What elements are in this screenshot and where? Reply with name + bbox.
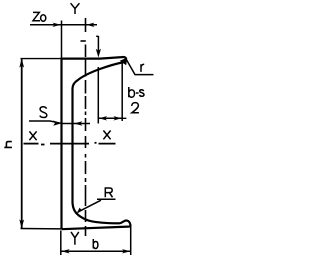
Zo arrow left (pointing right at web face) bbox=[53, 23, 61, 27]
R arrowhead at fillet bbox=[77, 208, 85, 214]
channel section outline bbox=[62, 57, 131, 229]
b-s over 2 right extension line (from flange tip) bbox=[121, 63, 123, 121]
S arrow at web outer face bbox=[53, 120, 61, 125]
Y label bottom bbox=[71, 232, 79, 245]
b dimension line bbox=[61, 250, 130, 252]
Zo dimension line bbox=[30, 24, 97, 26]
h dimension extension line top bbox=[21, 58, 62, 60]
b-s/2 arrow right bbox=[113, 116, 121, 120]
h dimension extension line bottom bbox=[21, 228, 62, 230]
r leader line bbox=[126, 59, 154, 75]
t measurement line upper with down arrow bbox=[97, 36, 99, 52]
Y label top bbox=[71, 3, 80, 14]
h dimension line bbox=[21, 59, 23, 228]
h arrow top bbox=[19, 59, 24, 68]
R leader underline bbox=[97, 198, 116, 200]
h arrow bottom bbox=[19, 219, 24, 228]
b label bbox=[93, 239, 98, 249]
b-s over 2 dimension line bbox=[99, 117, 122, 119]
S leader line bbox=[29, 121, 61, 123]
label b-s bbox=[129, 87, 144, 97]
r label bbox=[141, 64, 144, 72]
X label right bbox=[103, 131, 110, 140]
b arrow right bbox=[122, 249, 130, 253]
label 2 (denominator) bbox=[132, 103, 139, 113]
h label (rotated) bbox=[4, 142, 12, 148]
S arrow at web inner face bbox=[74, 121, 82, 125]
R label bbox=[105, 188, 112, 197]
t measurement line lower / b-s over 2 left extension bbox=[97, 67, 99, 124]
b-s/2 arrow left bbox=[99, 116, 107, 120]
X axis (dash-dot centreline) bbox=[24, 143, 116, 145]
b arrow left bbox=[61, 249, 69, 253]
X label left bbox=[29, 131, 36, 140]
b dimension right extension bbox=[130, 225, 132, 256]
S label bbox=[40, 107, 47, 118]
Zo label bbox=[33, 12, 46, 21]
Zo extension line (web outer face upward) bbox=[61, 21, 63, 59]
Y axis (dash-dot centreline) bbox=[81, 18, 86, 236]
S dimension line through web bbox=[62, 123, 90, 125]
b dimension left extension bbox=[60, 231, 62, 256]
Zo arrow right (pointing left at Y axis) bbox=[86, 23, 94, 27]
r leader arrowhead at flange tip bbox=[120, 58, 127, 66]
R leader line bbox=[78, 200, 101, 212]
